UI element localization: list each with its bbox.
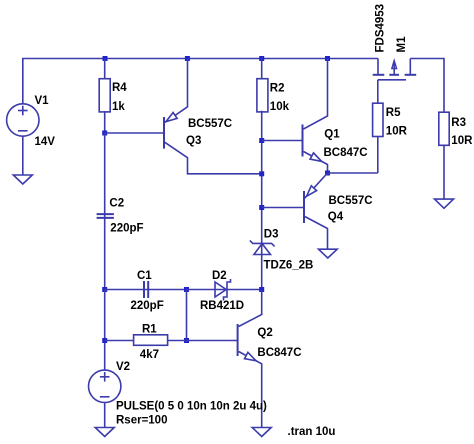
svg-text:10R: 10R — [386, 126, 408, 138]
transistor Q4 (PNP BC557C) — [304, 173, 328, 249]
node junction R1 left / V2 — [102, 338, 107, 343]
wire Q4 base — [262, 207, 304, 209]
ground V2 — [95, 428, 114, 437]
resistor R3 — [439, 112, 449, 199]
resistor R5 — [373, 103, 383, 173]
svg-text:R3: R3 — [451, 117, 466, 129]
svg-text:R4: R4 — [112, 82, 127, 94]
svg-text:FDS4953: FDS4953 — [375, 4, 387, 53]
svg-text:R5: R5 — [386, 107, 401, 119]
svg-text:C1: C1 — [137, 270, 152, 282]
ground Q4 — [319, 249, 338, 258]
node junction R1 right — [184, 338, 189, 343]
transistor Q1 (NPN BC847C) — [303, 59, 328, 174]
node junction R4 bottom / Q3 base — [102, 131, 107, 136]
resistor R1 — [105, 335, 187, 346]
wire C1 node down to R1 node — [186, 290, 188, 341]
svg-text:1k: 1k — [112, 101, 125, 113]
zener diode D3 TDZ6_2B — [250, 240, 275, 289]
svg-text:10R: 10R — [451, 135, 473, 147]
wire V1 bottom — [22, 136, 24, 175]
wire emitter node to R5 — [328, 172, 378, 174]
wire Q1 base — [262, 140, 303, 142]
svg-text:BC557C: BC557C — [329, 195, 373, 207]
svg-text:V2: V2 — [116, 361, 130, 373]
node junction Q1/Q4 emitters — [325, 171, 330, 176]
node junction top rail at Q1 collector — [325, 56, 330, 61]
svg-text:M1: M1 — [396, 36, 408, 53]
ground Q2 — [252, 428, 271, 437]
wire top rail right segment — [410, 59, 444, 113]
svg-text:14V: 14V — [35, 136, 56, 148]
transistor Q3 (PNP BC557C) — [164, 59, 262, 174]
svg-text:Q1: Q1 — [324, 129, 340, 141]
node junction Q3 collector net — [259, 171, 264, 176]
svg-text:V1: V1 — [35, 95, 50, 107]
node junction top rail at Q3 emitter — [185, 56, 190, 61]
node junction Q4 base net — [259, 205, 264, 210]
svg-text:PULSE(0 5 0 10n 10n 2u 4u): PULSE(0 5 0 10n 10n 2u 4u) — [116, 401, 267, 413]
wire Q3 base — [105, 132, 164, 134]
svg-text:Q4: Q4 — [328, 211, 344, 223]
wire top rail — [23, 59, 378, 105]
capacitor C1 — [105, 281, 187, 298]
ground R3 — [435, 199, 454, 208]
svg-text:BC847C: BC847C — [324, 147, 368, 159]
svg-text:220pF: 220pF — [131, 300, 164, 312]
mosfet M1 FDS4953 — [373, 59, 417, 104]
svg-text:BC847C: BC847C — [257, 347, 301, 359]
resistor R4 — [99, 59, 110, 134]
voltage source V2 — [89, 370, 121, 402]
svg-text:Q3: Q3 — [186, 135, 201, 147]
svg-text:TDZ6_2B: TDZ6_2B — [264, 259, 314, 271]
capacitor C2 — [97, 133, 114, 290]
node junction top rail at R4 — [103, 56, 108, 61]
node junction top rail at R2 — [259, 56, 264, 61]
node junction R2 bottom / Q1 base — [259, 138, 264, 143]
schottky diode D2 RB421D — [187, 279, 262, 301]
svg-text:R1: R1 — [142, 324, 157, 336]
wire V2 node to R1 — [104, 290, 106, 371]
resistor R2 — [257, 59, 268, 244]
wire Q2 base — [187, 340, 238, 342]
svg-text:BC557C: BC557C — [188, 118, 232, 130]
svg-text:4k7: 4k7 — [140, 349, 159, 361]
svg-text:D2: D2 — [212, 270, 227, 282]
node junction C1/D2/R1 riser — [184, 287, 189, 292]
svg-text:RB421D: RB421D — [200, 300, 244, 312]
svg-text:D3: D3 — [264, 229, 279, 241]
svg-text:C2: C2 — [109, 197, 124, 209]
transistor Q2 (NPN BC847C) — [238, 290, 262, 428]
voltage source V1 — [7, 104, 39, 136]
svg-text:R2: R2 — [270, 83, 285, 95]
svg-text:220pF: 220pF — [110, 223, 143, 235]
svg-text:Rser=100: Rser=100 — [116, 415, 167, 427]
node junction C2/C1 — [102, 287, 107, 292]
ground V1 — [13, 175, 32, 184]
node junction D2/D3/Q2 collector — [259, 287, 264, 292]
svg-text:.tran 10u: .tran 10u — [288, 426, 336, 438]
svg-text:10k: 10k — [270, 101, 290, 113]
wire V2 bottom — [104, 403, 106, 428]
svg-text:Q2: Q2 — [257, 327, 272, 339]
